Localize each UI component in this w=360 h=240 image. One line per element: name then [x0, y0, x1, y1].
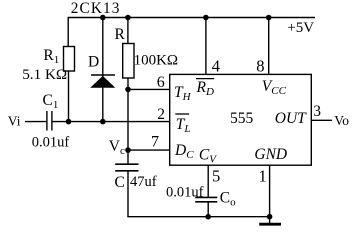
capacitor C plates	[115, 163, 138, 165]
svg-text:8: 8	[256, 57, 264, 76]
svg-text:R: R	[115, 26, 126, 43]
node diode top	[100, 15, 106, 21]
svg-text:1: 1	[259, 167, 267, 186]
wire pin8 stub	[268, 18, 270, 75]
wire R bottom lead to node	[127, 78, 129, 164]
svg-text:5.1 KΩ: 5.1 KΩ	[22, 66, 67, 83]
svg-text:2CK13: 2CK13	[71, 0, 121, 17]
wire pin4 stub	[205, 18, 207, 75]
wire top +5V rail	[68, 17, 315, 19]
svg-text:7: 7	[151, 134, 159, 151]
svg-text:6: 6	[157, 74, 165, 91]
node R1 bottom	[66, 119, 72, 125]
svg-text:D: D	[88, 54, 99, 71]
wire bottom rail	[127, 216, 269, 218]
wire pin7	[128, 149, 170, 151]
wire C0 bottom lead	[207, 202, 209, 217]
wire pin6	[128, 88, 170, 90]
wire pin2	[52, 121, 170, 123]
node pin8 top	[266, 15, 272, 21]
wire diode branch	[102, 18, 104, 122]
wire R1 bottom lead	[68, 71, 70, 122]
diode D cathode bar	[91, 74, 115, 76]
svg-text:OUT: OUT	[275, 110, 307, 127]
svg-text:5: 5	[212, 167, 220, 186]
resistor R	[123, 44, 134, 79]
svg-text:4: 4	[212, 57, 220, 76]
svg-text:555: 555	[230, 110, 254, 127]
node pin6	[125, 87, 131, 93]
capacitor C0 plates	[195, 196, 217, 198]
svg-text:0.01uf: 0.01uf	[32, 135, 70, 151]
wire pin3 out	[311, 119, 332, 121]
svg-text:100KΩ: 100KΩ	[134, 52, 178, 68]
node pin4 top	[203, 15, 209, 21]
wire Vi input	[25, 121, 47, 123]
wire C bottom lead	[127, 171, 129, 217]
svg-text:3: 3	[313, 103, 321, 120]
capacitor C1 plates	[46, 111, 48, 131]
svg-text:Vi: Vi	[8, 114, 21, 129]
overline TL	[175, 113, 189, 115]
wire R1 top lead	[67, 18, 69, 48]
svg-text:+5V: +5V	[287, 20, 314, 36]
svg-text:2: 2	[157, 106, 165, 123]
node ground junction	[267, 214, 273, 220]
node C0 bottom	[205, 214, 211, 220]
node R top	[125, 15, 131, 21]
diode D triangle	[90, 76, 115, 88]
node Vc	[125, 147, 131, 153]
ground	[259, 223, 281, 226]
wire pin1 stub	[269, 165, 271, 223]
node diode bottom	[100, 119, 106, 125]
wire R top lead	[127, 18, 129, 45]
svg-text:GND: GND	[254, 146, 287, 163]
svg-text:C: C	[115, 174, 125, 191]
svg-text:47uf: 47uf	[130, 174, 157, 190]
op-amp U1 555 box	[170, 74, 312, 165]
resistor R1	[64, 47, 75, 72]
overline RD	[196, 78, 214, 80]
svg-text:0.01uf: 0.01uf	[166, 184, 204, 200]
wire pin5 stub	[207, 165, 209, 197]
svg-text:Vo: Vo	[334, 113, 349, 128]
